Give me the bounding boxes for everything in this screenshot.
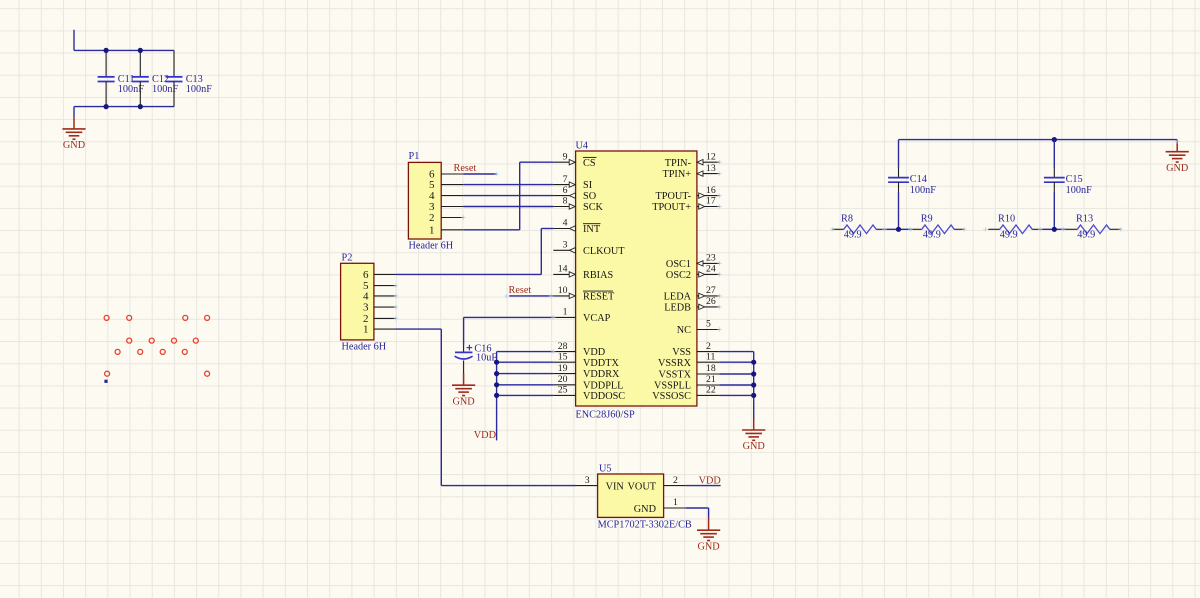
wire - VDD bus vertical <box>496 352 498 441</box>
svg-text:10: 10 <box>558 285 568 296</box>
svg-text:GND: GND <box>634 504 656 515</box>
svg-text:8: 8 <box>563 196 568 207</box>
svg-text:4: 4 <box>563 218 568 229</box>
resistor R10 49.9 <box>988 214 1043 241</box>
ground - under C16 <box>452 373 475 407</box>
svg-text:VDD: VDD <box>699 475 721 486</box>
svg-text:MCP1702T-3302E/CB: MCP1702T-3302E/CB <box>598 519 692 530</box>
U4 pin 8 SCK <box>553 196 603 213</box>
resistor R8 49.9 <box>832 214 884 241</box>
wire - to U4 CS <box>520 161 554 163</box>
U4 pin 6 SO <box>553 185 596 202</box>
svg-text:GND: GND <box>743 441 765 452</box>
wire - VDD bus to pin 28 <box>497 351 554 353</box>
capacitor C11 100nF <box>98 50 145 106</box>
U4 pin 20 VDDPLL <box>553 374 623 391</box>
svg-text:LEDA: LEDA <box>664 292 692 303</box>
capacitor C12 100nF <box>132 50 179 106</box>
svg-text:3: 3 <box>363 302 369 314</box>
svg-text:26: 26 <box>706 296 716 307</box>
U4 pin 18 VSSTX <box>659 363 720 380</box>
svg-text:VDD: VDD <box>583 347 605 358</box>
svg-text:NC: NC <box>677 325 691 336</box>
U4 pin 13 TPIN+ <box>662 163 719 180</box>
wire - U5 VOUT <box>686 485 721 487</box>
wire - P2.1 horizontal <box>396 328 441 330</box>
wire - VDD bus to pin 25 <box>497 394 554 396</box>
svg-text:1: 1 <box>363 324 369 336</box>
svg-text:VDD: VDD <box>474 430 496 441</box>
U4 pin 3 CLKOUT <box>553 240 625 257</box>
svg-text:GND: GND <box>452 396 474 407</box>
svg-text:R13: R13 <box>1076 214 1093 225</box>
capacitor C13 100nF <box>166 50 213 106</box>
svg-text:9: 9 <box>563 151 568 162</box>
wire - P2.6 horizontal to INT riser <box>396 273 541 275</box>
svg-text:100nF: 100nF <box>910 185 937 196</box>
svg-text:49.9: 49.9 <box>1077 230 1095 241</box>
svg-text:RBIAS: RBIAS <box>583 270 613 281</box>
U4 pin 15 VDDTX <box>553 351 619 368</box>
wire - rail drop to C14 <box>898 140 900 168</box>
wire - P1.6 Reset stub <box>463 173 496 175</box>
U4 pin 1 VCAP <box>553 307 610 324</box>
resistor R9 49.9 <box>910 214 964 241</box>
resistor R13 49.9 <box>1066 214 1121 241</box>
svg-text:CS: CS <box>583 158 596 169</box>
wire - VDD bus to pin 19 <box>497 373 554 375</box>
svg-text:24: 24 <box>706 264 716 275</box>
svg-text:OSC1: OSC1 <box>666 259 691 270</box>
junction - C15/R10/R13 <box>1052 227 1057 232</box>
power port VDD (U5 out) <box>699 475 721 486</box>
svg-text:Reset: Reset <box>509 285 532 296</box>
blue marker dot <box>104 380 107 383</box>
svg-text:U5: U5 <box>599 464 612 475</box>
junction - VSS bus <box>751 393 756 398</box>
U4 pin 23 OSC1 <box>666 253 720 270</box>
svg-text:4: 4 <box>363 291 369 303</box>
svg-text:OSC2: OSC2 <box>666 270 691 281</box>
junction - C11 bottom <box>104 104 109 109</box>
svg-text:18: 18 <box>706 363 716 374</box>
svg-text:VDDPLL: VDDPLL <box>583 380 623 391</box>
net label Reset (U4) <box>509 285 532 296</box>
wire - U4 pin 21 to VSS bus <box>720 384 754 386</box>
hotspot markers <box>394 139 1180 354</box>
wire - U4 pin 18 to VSS bus <box>720 373 754 375</box>
connector P2 Header 6H <box>341 252 396 352</box>
junction - C14/R8/R9 <box>896 227 901 232</box>
wire - top GND rail <box>899 139 1178 141</box>
wire - U4 VCAP horizontal <box>464 316 554 318</box>
junction - VDD bus <box>494 360 499 365</box>
svg-text:VDDTX: VDDTX <box>583 358 619 369</box>
svg-text:SCK: SCK <box>583 202 604 213</box>
wire - U4 pin 2 to VSS bus <box>720 351 754 353</box>
regulator U5 MCP1702T-3302E/CB <box>576 464 692 531</box>
wire - P1.1 vertical up to CS <box>519 162 521 230</box>
svg-text:Header 6H: Header 6H <box>342 342 387 353</box>
wire - INT riser vertical <box>540 229 542 275</box>
U4 pin 21 VSSPLL <box>654 374 720 391</box>
wire - VDD bus to pin 20 <box>497 384 554 386</box>
junction - VSS bus <box>751 382 756 387</box>
svg-text:49.9: 49.9 <box>1000 230 1018 241</box>
power port VDD (bus) <box>474 430 496 441</box>
svg-text:GND: GND <box>63 140 85 151</box>
wire - U5 GND horizontal <box>686 507 709 509</box>
svg-text:23: 23 <box>706 253 716 264</box>
svg-text:TPOUT+: TPOUT+ <box>652 202 691 213</box>
svg-text:C14: C14 <box>910 174 927 185</box>
junction - VDD bus <box>494 382 499 387</box>
wire - VDD bus to pin 15 <box>497 361 554 363</box>
U4 pin 24 OSC2 <box>666 264 720 281</box>
U4 pin 28 VDD <box>553 341 605 358</box>
U4 pin 27 LEDA <box>664 285 720 302</box>
red pad circles (connector graphic) <box>104 315 210 376</box>
svg-text:49.9: 49.9 <box>923 230 941 241</box>
svg-text:1: 1 <box>429 224 435 236</box>
ground - under U5 <box>697 508 720 553</box>
svg-text:VDDRX: VDDRX <box>583 369 620 380</box>
svg-text:16: 16 <box>706 185 716 196</box>
wire - R10 to junction to R13 <box>1043 228 1066 230</box>
svg-text:VOUT: VOUT <box>628 481 657 492</box>
U4 pin 25 VDDOSC <box>553 385 625 402</box>
svg-text:28: 28 <box>558 341 568 352</box>
U4 pin 11 VSSRX <box>658 351 720 368</box>
svg-text:2: 2 <box>706 341 711 352</box>
svg-text:25: 25 <box>558 385 568 396</box>
ground - top right <box>1166 140 1189 174</box>
svg-text:GND: GND <box>697 542 719 553</box>
svg-text:3: 3 <box>585 475 590 486</box>
svg-text:SI: SI <box>583 180 593 191</box>
svg-text:Reset: Reset <box>454 163 477 174</box>
junction - C15 tap on rail <box>1052 137 1057 142</box>
svg-text:21: 21 <box>706 374 716 385</box>
junction - VSS bus <box>751 371 756 376</box>
ground - under VSS bus <box>742 418 765 452</box>
svg-text:U4: U4 <box>576 140 589 151</box>
svg-text:RESET: RESET <box>583 292 615 303</box>
svg-text:3: 3 <box>563 240 568 251</box>
svg-text:7: 7 <box>563 174 568 185</box>
junction - C11 top <box>104 48 109 53</box>
junction - C12 bottom <box>138 104 143 109</box>
wire - U4 pin 22 to VSS bus <box>720 394 754 396</box>
svg-text:17: 17 <box>706 196 716 207</box>
svg-text:49.9: 49.9 <box>844 230 862 241</box>
svg-text:2: 2 <box>429 212 435 224</box>
wire - U4 pin 11 to VSS bus <box>720 361 754 363</box>
ground - top-left GND <box>62 107 85 151</box>
svg-text:6: 6 <box>563 185 568 196</box>
U4 pin 10 RESET <box>553 285 615 302</box>
wire - P2.1 vertical down to U5 <box>440 329 442 486</box>
svg-text:TPIN-: TPIN- <box>665 158 692 169</box>
svg-text:R10: R10 <box>998 214 1015 225</box>
svg-text:TPIN+: TPIN+ <box>662 169 691 180</box>
op-amp U4 box (ENC28J60/SP) <box>576 140 697 420</box>
svg-text:SO: SO <box>583 191 596 202</box>
wire - P1.5 to U4 SI <box>463 184 553 186</box>
U4 pin 7 SI <box>553 174 592 191</box>
wire - C14 to resistor row <box>898 192 900 229</box>
svg-text:VIN: VIN <box>606 481 625 492</box>
svg-text:R9: R9 <box>921 214 933 225</box>
svg-text:INT: INT <box>583 224 601 235</box>
wire - vertical stub top-left <box>73 30 75 51</box>
wire - rail drop to C15 <box>1053 140 1055 168</box>
capacitor C15 100nF <box>1044 168 1092 196</box>
junction - VDD bus <box>494 393 499 398</box>
wire - top rail C11-C13 <box>74 49 174 51</box>
wire - VSS bus vertical <box>753 352 755 419</box>
U4 pin 4 INT <box>553 218 601 235</box>
wire - R8 to junction to R9 <box>885 228 911 230</box>
U4 pin 9 CS <box>553 151 596 168</box>
svg-text:22: 22 <box>706 385 716 396</box>
U4 pin 12 TPIN- <box>665 151 720 168</box>
svg-text:R8: R8 <box>841 214 853 225</box>
svg-text:VSSPLL: VSSPLL <box>654 381 691 392</box>
svg-text:Header 6H: Header 6H <box>409 241 454 252</box>
svg-text:1: 1 <box>673 497 678 508</box>
svg-text:P1: P1 <box>409 151 420 162</box>
svg-text:2: 2 <box>673 475 678 486</box>
net label Reset (P1) <box>454 163 477 174</box>
wire - P1.4 to U4 SO <box>463 195 553 197</box>
capacitor C14 100nF <box>888 168 936 196</box>
svg-text:CLKOUT: CLKOUT <box>583 246 625 257</box>
U4 pin 5 NC <box>677 319 720 336</box>
svg-text:27: 27 <box>706 285 716 296</box>
svg-text:1: 1 <box>563 307 568 318</box>
svg-text:TPOUT-: TPOUT- <box>656 191 692 202</box>
svg-text:VSS: VSS <box>672 347 691 358</box>
svg-text:13: 13 <box>706 163 716 174</box>
svg-text:P2: P2 <box>342 252 353 263</box>
svg-text:100nF: 100nF <box>1066 185 1093 196</box>
svg-text:12: 12 <box>706 151 716 162</box>
connector P1 Header 6H <box>408 151 463 252</box>
svg-text:VSSTX: VSSTX <box>659 370 692 381</box>
wire - P1.3 to U4 SCK <box>463 206 553 208</box>
svg-text:VCAP: VCAP <box>583 313 611 324</box>
svg-text:VDDOSC: VDDOSC <box>583 391 625 402</box>
svg-text:VSSOSC: VSSOSC <box>652 391 691 402</box>
svg-text:ENC28J60/SP: ENC28J60/SP <box>576 410 636 421</box>
U4 pin 26 LEDB <box>664 296 719 313</box>
junction - VDD bus <box>494 371 499 376</box>
svg-text:6: 6 <box>363 269 369 281</box>
U4 pin 16 TPOUT- <box>656 185 720 202</box>
svg-text:5: 5 <box>706 319 711 330</box>
svg-text:100nF: 100nF <box>186 84 213 95</box>
U4 pin 17 TPOUT+ <box>652 196 719 213</box>
U4 pin 19 VDDRX <box>553 363 620 380</box>
wire - to U5 VIN <box>441 485 576 487</box>
svg-text:11: 11 <box>706 351 716 362</box>
U4 pin 14 RBIAS <box>553 264 613 281</box>
U4 pin 2 VSS <box>672 341 719 358</box>
U4 pin 22 VSSOSC <box>652 385 719 402</box>
svg-text:19: 19 <box>558 363 568 374</box>
svg-text:GND: GND <box>1166 163 1188 174</box>
capacitor C16 10uF (polarized) <box>455 344 498 373</box>
svg-text:C15: C15 <box>1066 174 1083 185</box>
svg-text:LEDB: LEDB <box>664 303 691 314</box>
wire - bottom rail C11-C13 <box>74 106 174 108</box>
wire - P1.1 horizontal <box>463 229 519 231</box>
svg-text:20: 20 <box>558 374 568 385</box>
junction - VSS bus <box>751 360 756 365</box>
wire - VCAP drop to C16 <box>463 317 465 344</box>
svg-text:VSSRX: VSSRX <box>658 358 692 369</box>
svg-text:14: 14 <box>558 264 568 275</box>
wire - Reset stub to U4 RESET <box>509 295 553 297</box>
wire - C15 to resistor row <box>1053 192 1055 229</box>
wire - to U4 INT <box>541 228 553 230</box>
svg-text:15: 15 <box>558 351 568 362</box>
junction - C12 top <box>138 48 143 53</box>
